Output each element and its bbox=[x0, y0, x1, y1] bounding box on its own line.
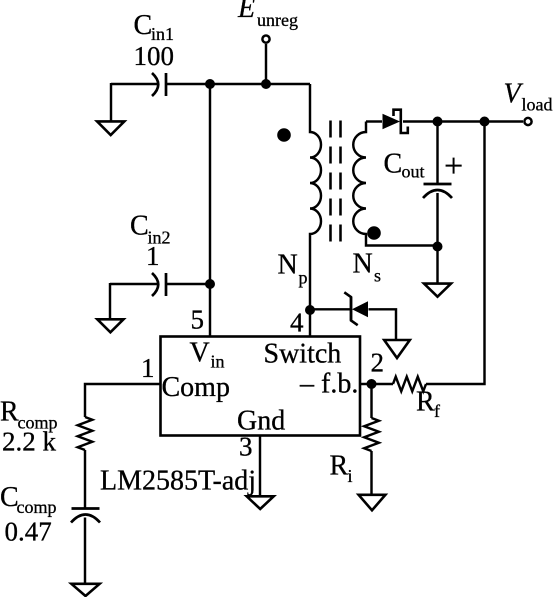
svg-text:V: V bbox=[190, 338, 210, 369]
svg-text:2: 2 bbox=[371, 348, 385, 378]
svg-text:p: p bbox=[299, 268, 308, 288]
svg-text:Comp: Comp bbox=[162, 372, 230, 403]
svg-text:f: f bbox=[434, 401, 440, 421]
svg-text:N: N bbox=[278, 250, 298, 281]
svg-text:E: E bbox=[237, 0, 255, 24]
svg-text:i: i bbox=[348, 466, 353, 486]
svg-text:unreg: unreg bbox=[257, 10, 298, 30]
svg-text:+: + bbox=[444, 148, 463, 185]
svg-text:C: C bbox=[130, 211, 149, 242]
svg-text:R: R bbox=[416, 387, 435, 418]
svg-text:in: in bbox=[211, 352, 225, 372]
svg-text:Switch: Switch bbox=[264, 339, 342, 370]
svg-text:LM2585T-adj: LM2585T-adj bbox=[100, 466, 256, 497]
svg-text:2.2 k: 2.2 k bbox=[2, 427, 57, 457]
svg-text:C: C bbox=[134, 10, 153, 41]
svg-text:s: s bbox=[374, 266, 381, 286]
svg-text:4: 4 bbox=[290, 308, 304, 338]
svg-text:Gnd: Gnd bbox=[237, 406, 285, 437]
svg-text:V: V bbox=[504, 79, 524, 110]
svg-text:R: R bbox=[330, 451, 349, 482]
svg-text:5: 5 bbox=[191, 305, 205, 335]
svg-text:1: 1 bbox=[146, 241, 160, 271]
svg-text:R: R bbox=[0, 397, 19, 428]
svg-text:N: N bbox=[353, 249, 373, 280]
svg-text:C: C bbox=[384, 149, 403, 180]
svg-text:comp: comp bbox=[17, 497, 57, 517]
svg-text:0.47: 0.47 bbox=[5, 517, 52, 547]
svg-text:load: load bbox=[522, 95, 553, 115]
svg-text:out: out bbox=[402, 162, 425, 182]
svg-text:– f.b.: – f.b. bbox=[299, 369, 358, 400]
svg-text:1: 1 bbox=[141, 353, 155, 383]
svg-text:100: 100 bbox=[134, 41, 175, 71]
